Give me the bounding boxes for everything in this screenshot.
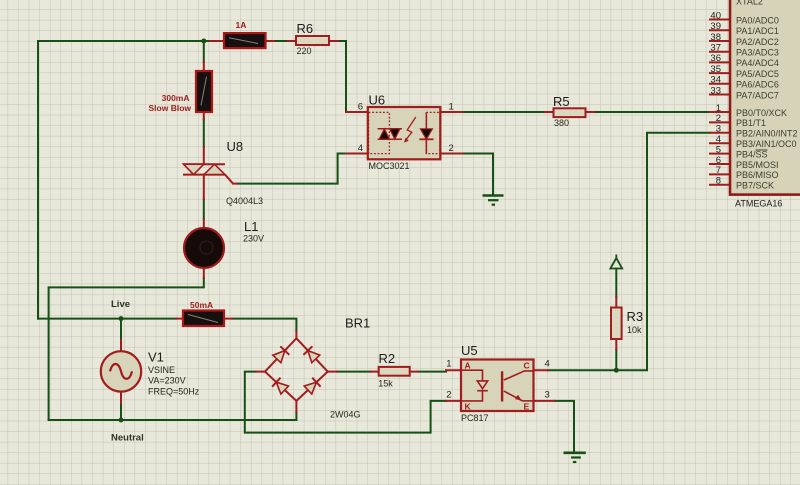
wire R2 to U5 pin1: [418, 371, 446, 373]
svg-text:PB1/T1: PB1/T1: [736, 118, 766, 128]
svg-text:PB4/SS: PB4/SS: [736, 149, 768, 159]
lead fuse F1 right: [266, 40, 275, 42]
lead U6 pin4: [346, 153, 368, 155]
opto-coupler U5 PC817: [461, 360, 534, 412]
wire bridge bottom lead: [295, 412, 297, 420]
resistor R2: [379, 367, 410, 376]
node junction top rail: [201, 39, 206, 44]
wire V1 top: [120, 319, 122, 340]
lead bridge right: [328, 371, 337, 373]
svg-text:FREQ=50Hz: FREQ=50Hz: [148, 386, 200, 396]
lead U5 pin3: [534, 400, 555, 402]
svg-text:U5: U5: [461, 343, 478, 358]
bridge BR1: [265, 338, 328, 401]
wire 50mA fuse to bridge top: [232, 319, 296, 331]
svg-text:PA1/ADC1: PA1/ADC1: [736, 26, 779, 36]
wire triac to lamp: [203, 199, 205, 219]
svg-text:7: 7: [716, 165, 721, 176]
svg-text:R5: R5: [553, 94, 570, 109]
wire 300mA fuse to triac: [203, 119, 205, 147]
svg-text:PB5/MOSI: PB5/MOSI: [736, 160, 779, 170]
wire top rail: [38, 40, 210, 42]
svg-text:35: 35: [710, 64, 721, 75]
lead R3 top: [615, 297, 617, 308]
wire U6 pin1 to R5: [462, 111, 545, 113]
resistor R6: [296, 36, 329, 45]
wire junction to 300mA fuse: [203, 41, 205, 62]
lead R6 right: [329, 40, 338, 42]
svg-text:39: 39: [710, 21, 721, 32]
svg-text:2: 2: [449, 143, 454, 154]
lead V1 top: [120, 340, 122, 351]
svg-text:E: E: [524, 402, 530, 412]
node junction Live V1: [119, 316, 124, 321]
svg-text:2: 2: [716, 113, 721, 124]
lamp L1: [184, 228, 224, 268]
lead triac top: [203, 147, 205, 164]
svg-text:R2: R2: [379, 351, 396, 366]
svg-text:Neutral: Neutral: [111, 433, 144, 444]
lead U6 pin6: [346, 111, 368, 113]
svg-text:PC817: PC817: [461, 413, 489, 423]
svg-text:37: 37: [710, 43, 721, 54]
lead U6 pin2: [440, 153, 462, 155]
wire triac gate to U6 pin4: [237, 154, 346, 184]
svg-text:Slow Blow: Slow Blow: [149, 103, 192, 113]
lead bridge left: [256, 371, 265, 373]
svg-text:ATMEGA16: ATMEGA16: [735, 199, 782, 209]
svg-text:V1: V1: [148, 349, 164, 364]
lead R3 bottom: [615, 339, 617, 350]
svg-text:300mA: 300mA: [162, 93, 190, 103]
svg-text:50mA: 50mA: [190, 300, 213, 310]
svg-text:PA0/ADC0: PA0/ADC0: [736, 15, 779, 25]
power arrow node: [610, 255, 622, 269]
lead fuse F3 left: [176, 318, 183, 320]
lead R6 left: [288, 40, 296, 42]
fuse F2 300mA: [196, 71, 212, 112]
wire bridge left to U5 pin2: [245, 372, 446, 433]
lead U5 pin1: [446, 369, 461, 371]
wire left rail vertical: [37, 41, 39, 319]
lead lamp bottom: [203, 268, 205, 278]
wire U5 pin3 to ground: [555, 401, 575, 452]
wire R6 to U6 pin6: [338, 41, 346, 112]
wire U6 pin2 to ground: [462, 154, 493, 195]
wire U5 pin4 to R3 node to ATMEGA16 PB2: [548, 133, 710, 370]
svg-text:40: 40: [710, 10, 721, 21]
svg-text:PA3/ADC3: PA3/ADC3: [736, 48, 779, 58]
lead gate stub: [233, 183, 237, 185]
svg-text:220: 220: [297, 46, 312, 56]
svg-text:L1: L1: [244, 219, 258, 234]
svg-text:3: 3: [716, 124, 721, 135]
wire Neutral line: [49, 419, 297, 421]
wire R3 to node: [615, 350, 617, 371]
svg-text:PA6/ADC6: PA6/ADC6: [736, 80, 779, 90]
svg-text:4: 4: [545, 359, 550, 370]
svg-text:PA5/ADC5: PA5/ADC5: [736, 69, 779, 79]
svg-text:8: 8: [716, 176, 721, 187]
opto-coupler U6 MOC3021: [368, 107, 441, 159]
svg-text:PB7/SCK: PB7/SCK: [736, 181, 774, 191]
svg-text:A: A: [465, 361, 471, 371]
svg-text:XTAL2: XTAL2: [736, 0, 763, 7]
svg-text:1A: 1A: [236, 20, 247, 30]
svg-text:5: 5: [716, 144, 721, 155]
lead fuse F3 right: [224, 318, 232, 320]
lead lamp top: [203, 219, 205, 229]
svg-text:2: 2: [446, 390, 451, 401]
lead U6 pin1: [440, 111, 462, 113]
svg-text:1: 1: [446, 359, 451, 370]
resistor R5: [554, 108, 586, 117]
lead R5 right: [586, 111, 595, 113]
diode BR1 top-right: [303, 346, 319, 362]
svg-text:6: 6: [358, 102, 363, 113]
node junction Neutral V1: [119, 418, 124, 423]
lead triac bottom: [203, 175, 205, 199]
svg-text:33: 33: [710, 85, 721, 96]
svg-text:C: C: [524, 361, 530, 371]
diode BR1 bottom-left: [272, 378, 288, 394]
svg-text:36: 36: [710, 53, 721, 64]
lead bridge top: [295, 331, 297, 338]
resistor R3: [611, 308, 622, 340]
source V1 VSINE: [101, 351, 141, 391]
svg-text:3: 3: [545, 390, 550, 401]
svg-text:Q4004L3: Q4004L3: [226, 196, 263, 206]
svg-text:MOC3021: MOC3021: [369, 161, 410, 171]
svg-text:34: 34: [710, 75, 721, 86]
triac U8: [183, 164, 233, 183]
lead bridge bottom: [295, 401, 297, 412]
svg-text:VA=230V: VA=230V: [148, 376, 186, 386]
svg-text:2W04G: 2W04G: [330, 410, 361, 420]
svg-text:PB3/AIN1/OC0: PB3/AIN1/OC0: [736, 139, 797, 149]
ground under U5 pin3: [564, 453, 586, 463]
lead V1 bottom: [120, 392, 122, 403]
svg-text:PA4/ADC4: PA4/ADC4: [736, 58, 779, 68]
svg-text:230V: 230V: [243, 234, 264, 244]
diode BR1 top-left: [273, 346, 289, 362]
svg-text:R3: R3: [627, 309, 644, 324]
svg-text:1: 1: [716, 103, 721, 114]
wire V1 bottom: [120, 403, 122, 420]
svg-text:U6: U6: [369, 93, 386, 108]
wire power arrow to R3: [615, 269, 617, 298]
svg-text:PB6/MISO: PB6/MISO: [736, 170, 779, 180]
diode BR1 bottom-right: [304, 378, 320, 394]
lead fuse F2 top: [203, 62, 205, 71]
svg-text:BR1: BR1: [345, 316, 370, 331]
IC U7 ATMEGA16 body: [730, 0, 800, 195]
svg-text:15k: 15k: [378, 379, 393, 389]
svg-text:380: 380: [554, 118, 569, 128]
lead R2 right: [410, 371, 418, 373]
ground under U6 pin2: [483, 196, 504, 206]
svg-text:PA7/ADC7: PA7/ADC7: [736, 90, 779, 100]
wire R5 to ATMEGA16 PB0: [594, 111, 710, 113]
wire bridge right to R2: [337, 371, 371, 373]
fuse F1 1A: [224, 33, 266, 48]
svg-text:4: 4: [716, 134, 721, 145]
svg-text:10k: 10k: [627, 325, 642, 335]
lead U5 pin2: [446, 400, 461, 402]
svg-text:PB2/AIN0/INT2: PB2/AIN0/INT2: [736, 129, 798, 139]
svg-text:K: K: [465, 402, 472, 412]
svg-text:4: 4: [358, 143, 363, 154]
IC U7 ATMEGA16 pin stubs: [710, 20, 730, 185]
lead R5 left: [545, 111, 554, 113]
svg-text:PB0/T0/XCK: PB0/T0/XCK: [736, 108, 787, 118]
wire 1A fuse to R6: [274, 40, 288, 42]
fuse F3 50mA: [183, 311, 224, 327]
svg-text:6: 6: [716, 155, 721, 166]
svg-text:Live: Live: [111, 299, 130, 310]
lead fuse F2 bottom: [203, 112, 205, 119]
lead R2 left: [371, 371, 379, 373]
svg-text:1: 1: [449, 102, 454, 113]
svg-text:38: 38: [710, 32, 721, 43]
svg-text:U8: U8: [227, 139, 244, 154]
wire Live line: [38, 318, 176, 320]
lead fuse F1 left: [210, 40, 224, 42]
svg-text:PA2/ADC2: PA2/ADC2: [736, 37, 779, 47]
svg-text:VSINE: VSINE: [148, 365, 175, 375]
wire lamp to neutral: [49, 278, 204, 420]
lead U5 pin4: [534, 369, 549, 371]
svg-text:R6: R6: [297, 21, 314, 36]
node junction R3 bottom: [614, 368, 619, 373]
